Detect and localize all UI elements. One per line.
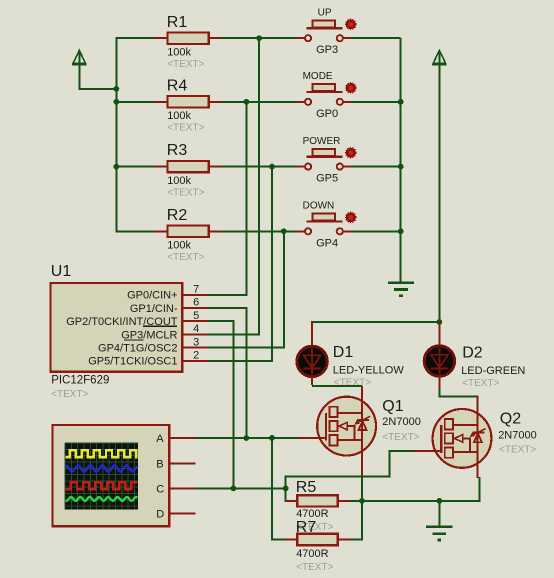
svg-text:100k: 100k [167,175,191,187]
svg-text:D2: D2 [462,345,483,362]
resistor R1 [155,37,169,39]
ground (bottom center) [426,525,452,528]
pin 3 lead of U1 [182,347,208,349]
LED D2 anode lead [438,322,440,347]
button POWER (GP5) [296,166,305,168]
wire R3 to button [222,166,296,168]
svg-text:GP4/T1G/OSC2: GP4/T1G/OSC2 [98,343,177,355]
junction row C at GP2 [231,486,237,492]
junction R3 row to GPIO vertical [269,164,275,170]
svg-text:5: 5 [193,310,199,322]
svg-text:<TEXT>: <TEXT> [167,123,204,134]
svg-text:Q2: Q2 [500,411,521,428]
power symbol VCC (right arrow) [433,50,445,63]
oscilloscope pin A lead [169,437,195,439]
junction R1 row to GPIO vertical [256,35,262,41]
transistor Q1 drain lead [361,386,363,402]
svg-text:<TEXT>: <TEXT> [382,432,419,443]
wire pin4 GP3 up to UP row [208,333,259,335]
pin 4 lead of U1 [182,333,208,335]
svg-text:<TEXT>: <TEXT> [167,187,204,198]
wire R5 node up/over to Q2 gate [285,476,287,502]
junction row A to R7 branch [269,435,275,441]
LED D2 cathode lead [438,375,440,389]
IC U1 body [51,283,183,372]
svg-text:<TEXT>: <TEXT> [296,562,333,573]
wire D2 to Q2 drain [438,388,440,396]
svg-text:<TEXT>: <TEXT> [462,378,499,389]
wire R7 branch vertical [271,437,273,540]
junction rail DOWN row [398,228,404,234]
button UP red actuator dot [344,18,357,31]
wire button DOWN to ground rail [352,230,400,232]
svg-text:GP1/CIN-: GP1/CIN- [130,303,178,315]
svg-text:GP5: GP5 [316,173,338,185]
wire pin6 GP1 down to scope A row [208,307,247,309]
oscilloscope screen [65,443,138,509]
junction bus/arrow feed [114,86,120,92]
resistor R3 [155,166,169,168]
svg-text:<TEXT>: <TEXT> [167,252,204,263]
transistor Q1 drain/source vertical [361,398,363,478]
junction bus R4 row [114,99,120,105]
transistor Q1 gate lead [298,437,326,439]
svg-text:LED-GREEN: LED-GREEN [461,365,525,377]
svg-text:DOWN: DOWN [303,201,335,212]
scope trace channel C (red square) [66,482,138,489]
wire bus to R2 [115,230,154,232]
junction row A at GP1 [244,435,250,441]
button DOWN (GP4) [296,230,305,232]
junction R2 row to GPIO vertical [281,228,287,234]
pin 7 lead of U1 [182,294,208,296]
resistor R5 [286,500,299,502]
junction bus R3 row [114,164,120,170]
svg-text:B: B [156,458,163,470]
wire bus to R3 [115,166,154,168]
svg-text:R1: R1 [167,14,188,31]
wire pin5 GP2 down to scope C row [208,320,234,322]
button POWER red actuator dot [344,146,357,159]
resistor R4 [155,101,169,103]
power symbol VCC (left arrow) [73,50,85,63]
svg-text:UP: UP [318,8,332,19]
svg-text:3: 3 [193,336,199,348]
transistor Q2 drain lead [476,395,478,425]
wire D1 to Q1 drain [312,385,362,387]
oscilloscope pin B lead [169,462,195,464]
LED D1 cathode lead [311,376,313,385]
svg-text:<TEXT>: <TEXT> [334,378,371,389]
LED D1 (yellow) [297,346,327,376]
svg-text:U1: U1 [51,263,72,280]
junction rail MODE row [398,99,404,105]
svg-text:C: C [156,483,164,495]
svg-text:D: D [156,509,164,521]
scope trace channel A (yellow square) [66,450,138,457]
svg-text:D1: D1 [333,344,354,361]
svg-text:R5: R5 [296,479,317,496]
wire bus to R4 [115,101,154,103]
oscilloscope pin C lead [169,487,195,489]
svg-text:7: 7 [193,284,199,296]
transistor Q1 (2N7000) [317,397,376,456]
svg-text:R2: R2 [167,207,188,224]
svg-text:MODE: MODE [303,71,333,82]
svg-text:<TEXT>: <TEXT> [167,59,204,70]
wire ground stub [438,501,440,526]
wire LED node to D1 [312,321,440,323]
oscilloscope body [53,425,170,526]
svg-text:GP4: GP4 [316,237,338,249]
svg-text:R3: R3 [167,142,188,159]
svg-text:4700R: 4700R [296,548,328,560]
svg-text:2: 2 [193,350,199,362]
LED D1 anode lead [311,321,313,347]
wire scope row A / Q1 gate [196,437,299,439]
junction row C at R5 branch [283,486,289,492]
overline T1G (pin 3) [124,339,144,341]
wire left resistor bus vertical [115,38,117,231]
svg-text:2N7000: 2N7000 [382,416,421,428]
wire Q1 source down to R7 [361,477,363,539]
pin 5 lead of U1 [182,320,208,322]
wire pin3 GP4 up to DOWN row [208,347,284,349]
transistor Q2 gate lead [413,450,441,452]
wire bus to R1 [115,37,154,39]
svg-text:POWER: POWER [303,136,341,147]
wire power arrow to left bus [78,64,80,89]
wire pin7 GP0 to MODE row [208,294,247,296]
wire pin2 GP5 up to POWER row [208,360,272,362]
svg-text:2N7000: 2N7000 [498,429,537,441]
button MODE (GP0) [296,101,305,103]
svg-text:Q1: Q1 [382,398,403,415]
LED D2 (green) [424,346,454,376]
wire button UP to ground rail [352,37,400,39]
svg-text:PIC12F629: PIC12F629 [51,375,109,387]
overline MCLR (pin 4 active low) [143,325,177,327]
svg-text:GP0: GP0 [316,108,338,120]
scope trace channel D (green wave) [66,497,138,501]
svg-text:100k: 100k [167,240,191,252]
wire button MODE to ground rail [352,101,400,103]
svg-text:R4: R4 [167,77,188,94]
button MODE red actuator dot [344,81,357,94]
scope trace channel B (blue wave) [66,465,138,471]
transistor Q2 source lead [476,450,478,478]
oscilloscope pin D lead [169,513,195,515]
wire R2 to button [222,230,296,232]
wire VCC arrow down to LED node [438,64,440,322]
resistor R7 [286,539,299,541]
resistor R2 [155,230,169,232]
svg-text:<TEXT>: <TEXT> [499,445,536,456]
wire ground rail vertical [400,38,402,282]
svg-text:100k: 100k [167,110,191,122]
svg-text:6: 6 [193,297,199,309]
svg-text:GP5/T1CKI/OSC1: GP5/T1CKI/OSC1 [88,356,177,368]
transistor Q2 (2N7000) [433,409,492,468]
ground (top right) [388,281,414,284]
wire R4 to button [222,101,296,103]
svg-text:4700R: 4700R [296,508,328,520]
wire R1 to button [222,37,296,39]
pin 6 lead of U1 [182,307,208,309]
pin 2 lead of U1 [182,360,208,362]
junction source rail at ground [437,498,443,504]
button DOWN red actuator dot [344,211,357,224]
junction rail POWER row [398,164,404,170]
junction LED feed [437,319,443,325]
button UP (GP3) [296,37,305,39]
svg-text:GP0/CIN+: GP0/CIN+ [127,290,177,302]
svg-text:<TEXT>: <TEXT> [51,389,88,400]
svg-text:GP3: GP3 [316,44,338,56]
svg-text:A: A [156,433,164,445]
wire source rail (R5/Q1/Q2/GND) [350,500,479,502]
svg-text:4: 4 [193,323,199,335]
svg-text:100k: 100k [167,47,191,59]
wire scope row C (GP2 net) [196,487,286,489]
wire button POWER to ground rail [352,166,400,168]
junction R4 row to GPIO vertical [244,99,250,105]
svg-text:LED-YELLOW: LED-YELLOW [333,364,405,376]
junction source rail at Q1 [359,498,365,504]
